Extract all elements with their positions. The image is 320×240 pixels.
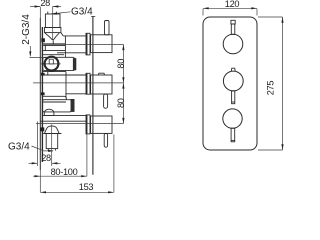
ring inner slot	[49, 59, 53, 64]
label 2-G3/4 leader	[29, 46, 31, 56]
dim 153 line	[40, 191, 114, 193]
dim 153 ext right	[113, 135, 115, 193]
top pipe centerline	[52, 7, 54, 41]
svg-text:80: 80	[116, 98, 126, 108]
screw S1 top	[41, 38, 45, 42]
finished wall plane tick	[91, 16, 95, 18]
top inlet pipe	[45, 14, 60, 28]
knob2 lever down	[104, 94, 108, 108]
label G3/4 bottom leader arrow	[48, 150, 54, 152]
dim 28 top line right segment	[53, 6, 61, 8]
knob3 neck top line	[43, 114, 86, 116]
wall face ext to bottom	[39, 170, 41, 192]
finished wall plane line	[92, 17, 94, 175]
svg-text:2-G3/4: 2-G3/4	[21, 14, 32, 45]
dim 80 arrows middle	[122, 77, 124, 83]
screw S2	[41, 73, 45, 76]
body shoulder upper line	[43, 43, 66, 45]
top funnel left slope	[45, 33, 53, 40]
bottom pipe centerline	[51, 125, 53, 167]
knob2 flange thick edge	[86, 73, 88, 94]
label G3/4 top leader	[57, 12, 71, 14]
dim 28 top arrow right	[53, 5, 59, 7]
dim 80 arrows middle lower	[122, 83, 124, 89]
dim 120 arrow right	[251, 7, 257, 9]
knob2 top nub	[98, 73, 104, 75]
dim 153 arrow left	[40, 191, 46, 193]
dim 80-100 ext right	[86, 133, 88, 177]
top funnel right slope	[53, 33, 59, 40]
plate knob3 stem	[231, 128, 235, 142]
svg-text:275: 275	[266, 81, 276, 96]
dim 28 top line left segment	[30, 6, 40, 8]
knob3 centerline	[36, 123, 123, 125]
top funnel throat	[52, 40, 54, 44]
top pipe bore tick left	[47, 12, 49, 14]
knob2 neck bottom	[65, 93, 86, 95]
dim 80 vertical line	[122, 44, 124, 123]
plate knob2 stem cap line	[232, 101, 235, 103]
body detail vertical x45.3	[44, 45, 46, 50]
dim 28 bottom arrow left	[32, 162, 38, 164]
knob1 flange thick edge	[86, 33, 88, 55]
knob1 neck bottom to body	[57, 52, 86, 54]
cartridge 1 block	[43, 57, 75, 70]
label 2-G3/4 leader arrow	[29, 51, 31, 56]
knob1 lever up	[105, 21, 110, 35]
top pipe bore tick right	[55, 12, 57, 14]
rail rect right end	[65, 96, 67, 99]
body rail y102	[43, 101, 66, 103]
dim 275 ext top	[258, 16, 283, 18]
dim 275 line	[282, 17, 284, 150]
bottom pipe thread tick left	[47, 149, 49, 151]
body rail y74.9 knob2 neck top	[43, 74, 86, 76]
dim 275 arrow top	[281, 17, 283, 23]
body detail vertical x47.8	[47, 72, 49, 75]
plate knob1 stem cap	[231, 20, 235, 24]
cartridge 1 hatch	[73, 58, 76, 70]
svg-text:G3/4: G3/4	[71, 6, 93, 17]
knob2 centerline	[33, 82, 123, 84]
dim 153 arrow right	[108, 191, 114, 193]
cartridge 2 hatch	[71, 99, 75, 112]
bottom pipe thread tick right	[55, 149, 57, 151]
dim 80-100 line	[33, 175, 87, 177]
body rail y96.3	[43, 95, 65, 97]
svg-text:G3/4: G3/4	[8, 141, 30, 152]
small dome boss	[44, 109, 54, 115]
plate knob2 circle	[223, 71, 243, 91]
trim plate	[203, 17, 257, 150]
knob3 body	[91, 116, 112, 133]
svg-text:28: 28	[40, 0, 50, 8]
dim 120 ext right	[256, 9, 258, 16]
plate knob1 stem	[231, 24, 235, 34]
knob1 body	[91, 35, 112, 53]
plate knob2 top nub	[231, 68, 235, 71]
plate knob3 circle	[223, 109, 242, 128]
body front face mid	[65, 72, 67, 99]
svg-text:153: 153	[79, 182, 94, 192]
dim 80-100 arrow left	[35, 175, 41, 177]
dim 80 arrow bottom down	[122, 118, 124, 124]
body shoulder lower line	[43, 44, 66, 46]
dim 120 arrow left	[203, 7, 209, 9]
screw S3	[41, 92, 45, 95]
dim 275 arrow bottom	[281, 144, 283, 150]
body rail y71.6	[43, 71, 66, 73]
ring nut circle	[45, 57, 59, 71]
bottom outlet pipe	[46, 134, 58, 149]
knob3 flange	[86, 115, 90, 134]
ring centerline	[41, 63, 61, 65]
dim 28 top ext line	[39, 7, 41, 18]
bottom dome base line	[43, 133, 61, 135]
valve body front face	[64, 36, 66, 58]
plate knob3 stem cap line	[231, 139, 235, 141]
cartridge 2 block	[43, 100, 72, 112]
knob2 body	[91, 75, 112, 94]
svg-text:80-100: 80-100	[51, 167, 78, 177]
top pipe lower section	[45, 28, 61, 33]
top body chamfer	[61, 33, 63, 36]
dim 28 bottom line left	[29, 162, 38, 164]
wire wall plate face line	[39, 18, 41, 170]
knob3 flange thick edge	[86, 115, 88, 134]
knob2 flange	[86, 73, 90, 94]
bottom outlet dome	[44, 126, 59, 134]
knob3 lever down	[104, 133, 107, 147]
plate knob2 stem	[232, 91, 235, 104]
knob1 centerline	[44, 43, 124, 45]
body rail y50.6	[43, 50, 66, 52]
label G3/4 top leader arrow	[51, 13, 57, 15]
dim 28 bottom ext left	[36, 122, 38, 167]
dim 275 ext bottom	[258, 149, 283, 151]
dim 120 ext left	[202, 9, 204, 16]
dim 28 bottom line right	[52, 162, 61, 164]
screw S4 bottom	[40, 127, 44, 131]
dim 80 arrow top up	[122, 44, 124, 50]
body bottom line	[40, 120, 86, 122]
dim 28 top arrow left	[35, 5, 41, 7]
svg-text:120: 120	[225, 0, 240, 9]
label G3/4 bottom leader	[32, 146, 54, 151]
wire wall plate back line	[41, 27, 43, 162]
dim 120 line	[203, 7, 257, 9]
side inlet centerline	[30, 57, 47, 59]
dim 28 bottom arrow right	[52, 162, 58, 164]
top body shoulder line	[63, 35, 86, 37]
svg-text:28: 28	[41, 153, 51, 163]
dim 80-100 arrow right	[81, 175, 87, 177]
svg-text:80: 80	[116, 59, 126, 69]
knob1 flange	[86, 33, 90, 55]
body rail y54.7	[43, 54, 64, 56]
plate knob1 circle	[223, 34, 243, 54]
